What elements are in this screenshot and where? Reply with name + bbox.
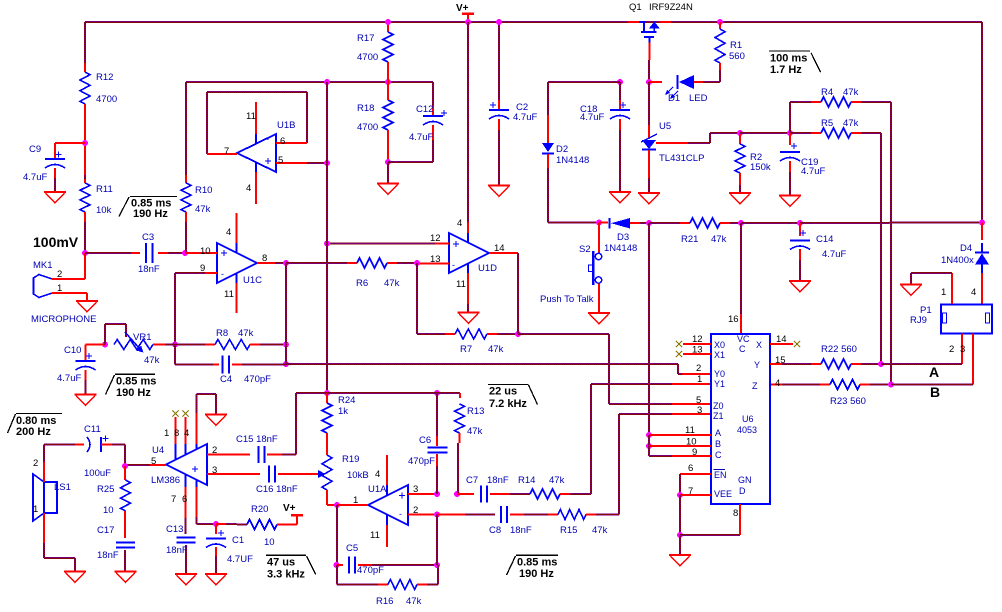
svg-text:8: 8 (174, 428, 179, 439)
svg-text:9: 9 (200, 263, 205, 274)
svg-text:3: 3 (413, 484, 418, 495)
svg-text:Y0: Y0 (714, 369, 725, 379)
svg-text:C17: C17 (97, 525, 114, 536)
svg-text:11: 11 (370, 530, 380, 541)
svg-text:47k: 47k (384, 278, 400, 289)
svg-text:150k: 150k (750, 162, 771, 173)
svg-text:11: 11 (246, 111, 256, 122)
svg-text:7: 7 (171, 494, 176, 505)
svg-text:5: 5 (278, 155, 283, 166)
svg-text:4.7uF: 4.7uF (409, 132, 433, 143)
svg-text:4: 4 (375, 469, 380, 480)
svg-text:U1B: U1B (277, 120, 295, 131)
svg-text:3.3 kHz: 3.3 kHz (267, 569, 305, 581)
svg-text:R11: R11 (96, 184, 113, 195)
svg-text:R4: R4 (821, 87, 833, 98)
svg-text:11: 11 (456, 279, 466, 290)
svg-text:7: 7 (224, 146, 229, 157)
svg-text:47 us: 47 us (267, 557, 295, 569)
svg-text:47k: 47k (488, 344, 504, 355)
svg-text:470pF: 470pF (244, 374, 271, 385)
svg-text:X: X (756, 340, 762, 350)
svg-text:4: 4 (184, 428, 189, 439)
svg-text:C16 18nF: C16 18nF (256, 484, 298, 495)
svg-text:IRF9Z24N: IRF9Z24N (649, 2, 693, 13)
svg-text:470pF: 470pF (408, 456, 435, 467)
svg-text:10: 10 (264, 537, 275, 548)
svg-text:47k: 47k (406, 596, 422, 607)
svg-text:LED: LED (689, 93, 708, 104)
svg-text:6: 6 (182, 494, 187, 505)
svg-text:D4: D4 (960, 243, 972, 254)
svg-text:VC: VC (737, 334, 750, 344)
svg-text:R22 560: R22 560 (821, 344, 857, 355)
svg-text:-: - (221, 269, 224, 279)
svg-text:R12: R12 (96, 72, 113, 83)
svg-text:B: B (930, 384, 940, 400)
svg-text:EN: EN (714, 470, 727, 480)
svg-text:22 us: 22 us (489, 386, 517, 398)
svg-text:R16: R16 (376, 596, 393, 607)
svg-text:1N4148: 1N4148 (556, 155, 589, 166)
svg-text:U1A: U1A (368, 484, 387, 495)
svg-text:47k: 47k (592, 525, 608, 536)
svg-text:4.7uF: 4.7uF (580, 112, 604, 123)
svg-text:MICROPHONE: MICROPHONE (31, 314, 96, 325)
svg-text:4.7uF: 4.7uF (23, 172, 47, 183)
svg-text:4: 4 (246, 183, 251, 194)
svg-text:U1C: U1C (243, 275, 262, 286)
svg-text:X0: X0 (714, 340, 725, 350)
svg-text:2: 2 (413, 505, 418, 516)
svg-text:D1: D1 (668, 93, 680, 104)
svg-text:2: 2 (57, 269, 62, 280)
svg-text:B: B (715, 439, 721, 449)
svg-text:4053: 4053 (737, 425, 757, 435)
svg-text:MK1: MK1 (33, 260, 53, 271)
svg-text:14: 14 (776, 334, 787, 345)
svg-text:1.7 Hz: 1.7 Hz (770, 64, 802, 76)
svg-text:1: 1 (57, 283, 62, 294)
svg-text:4: 4 (775, 378, 780, 389)
svg-text:S2: S2 (579, 244, 591, 255)
svg-text:VR1: VR1 (133, 332, 151, 343)
svg-text:10: 10 (103, 505, 114, 516)
svg-text:47k: 47k (467, 426, 483, 437)
svg-text:C7: C7 (466, 475, 478, 486)
svg-text:190 Hz: 190 Hz (133, 208, 168, 220)
svg-text:3: 3 (697, 405, 702, 416)
svg-text:-: - (266, 134, 269, 144)
svg-text:C10: C10 (64, 345, 81, 356)
svg-text:6: 6 (280, 136, 285, 147)
svg-text:3: 3 (212, 465, 217, 476)
svg-text:200 Hz: 200 Hz (16, 426, 51, 438)
svg-text:Y: Y (754, 360, 760, 370)
svg-text:C12: C12 (416, 104, 433, 115)
svg-text:C13: C13 (166, 524, 183, 535)
svg-text:12: 12 (692, 334, 703, 345)
svg-text:LM386: LM386 (151, 475, 180, 486)
svg-text:2: 2 (33, 458, 38, 469)
svg-text:10kB: 10kB (347, 470, 369, 481)
svg-text:C: C (739, 344, 746, 354)
svg-text:0.85 ms: 0.85 ms (517, 557, 557, 569)
svg-text:Z1: Z1 (713, 411, 724, 421)
svg-text:2: 2 (696, 363, 701, 374)
svg-text:47k: 47k (711, 234, 727, 245)
svg-text:TL431CLP: TL431CLP (659, 153, 704, 164)
svg-text:C5: C5 (346, 543, 358, 554)
svg-text:4700: 4700 (357, 122, 378, 133)
svg-text:U1D: U1D (478, 263, 497, 274)
svg-text:R7: R7 (460, 344, 472, 355)
svg-text:5: 5 (151, 456, 156, 467)
svg-text:3: 3 (960, 344, 965, 355)
svg-text:18nF: 18nF (487, 475, 509, 486)
svg-text:4: 4 (226, 227, 231, 238)
svg-text:4: 4 (457, 218, 462, 229)
svg-text:C: C (715, 450, 722, 460)
svg-text:13: 13 (430, 254, 441, 265)
svg-text:GN: GN (738, 475, 752, 485)
svg-text:R21: R21 (681, 234, 698, 245)
svg-text:D3: D3 (617, 232, 629, 243)
svg-text:4.7uF: 4.7uF (513, 112, 537, 123)
svg-text:X1: X1 (714, 350, 725, 360)
svg-text:C6: C6 (419, 435, 431, 446)
svg-text:18nF: 18nF (97, 550, 119, 561)
svg-text:1: 1 (164, 428, 169, 439)
svg-text:14: 14 (494, 243, 505, 254)
svg-text:U5: U5 (659, 121, 671, 132)
svg-text:1N400x: 1N400x (941, 255, 974, 266)
svg-text:47k: 47k (843, 118, 859, 129)
svg-text:R18: R18 (357, 103, 374, 114)
svg-text:R17: R17 (357, 33, 374, 44)
svg-text:4: 4 (971, 287, 976, 298)
svg-text:U4: U4 (152, 445, 164, 456)
svg-text:4700: 4700 (357, 52, 378, 63)
svg-text:47k: 47k (549, 475, 565, 486)
svg-text:15: 15 (775, 355, 786, 366)
svg-text:R13: R13 (467, 406, 484, 417)
svg-text:10: 10 (200, 246, 211, 257)
svg-text:4.7UF: 4.7UF (227, 554, 253, 565)
svg-text:4700: 4700 (96, 94, 117, 105)
svg-text:47k: 47k (195, 204, 211, 215)
svg-text:1: 1 (353, 495, 358, 506)
svg-text:190 Hz: 190 Hz (116, 387, 151, 399)
svg-text:C14: C14 (816, 234, 833, 245)
svg-text:V+: V+ (283, 503, 296, 514)
svg-text:-: - (399, 509, 402, 519)
svg-text:10k: 10k (96, 205, 112, 216)
svg-text:18nF: 18nF (166, 545, 188, 556)
svg-text:R25: R25 (97, 484, 114, 495)
svg-text:R14: R14 (518, 475, 535, 486)
svg-text:11: 11 (224, 289, 234, 300)
svg-text:R1: R1 (730, 40, 742, 51)
svg-text:Z: Z (752, 381, 758, 391)
svg-text:U6: U6 (742, 414, 754, 424)
svg-text:560: 560 (729, 51, 745, 62)
svg-text:A: A (715, 428, 721, 438)
svg-text:D2: D2 (556, 144, 568, 155)
svg-text:VEE: VEE (714, 489, 732, 499)
svg-text:1k: 1k (338, 406, 348, 417)
svg-text:13: 13 (692, 345, 703, 356)
svg-text:C15 18nF: C15 18nF (236, 434, 278, 445)
svg-text:Z0: Z0 (713, 401, 724, 411)
svg-text:6: 6 (688, 463, 693, 474)
svg-text:18nF: 18nF (510, 525, 532, 536)
svg-text:Push To Talk: Push To Talk (540, 294, 594, 305)
svg-text:1: 1 (941, 287, 946, 298)
svg-text:1N4148: 1N4148 (604, 243, 637, 254)
svg-text:C9: C9 (29, 144, 41, 155)
svg-text:C11: C11 (84, 424, 101, 435)
svg-text:R8: R8 (216, 328, 228, 339)
svg-text:47k: 47k (144, 355, 160, 366)
svg-text:C3: C3 (142, 232, 154, 243)
svg-text:7.2 kHz: 7.2 kHz (489, 398, 527, 410)
svg-text:47k: 47k (843, 87, 859, 98)
svg-text:2: 2 (949, 344, 954, 355)
svg-text:1: 1 (697, 374, 702, 385)
svg-text:A: A (929, 364, 939, 380)
svg-text:R23 560: R23 560 (830, 396, 866, 407)
svg-text:Q1: Q1 (629, 2, 642, 13)
svg-text:16: 16 (728, 314, 739, 325)
svg-text:4.7uF: 4.7uF (801, 166, 825, 177)
svg-text:R6: R6 (356, 278, 368, 289)
svg-text:100mV: 100mV (33, 234, 79, 250)
svg-text:R24: R24 (338, 395, 355, 406)
svg-text:8: 8 (733, 508, 738, 519)
svg-text:18nF: 18nF (138, 264, 160, 275)
svg-text:C1: C1 (232, 535, 244, 546)
svg-text:-: - (452, 260, 455, 270)
svg-text:2: 2 (212, 445, 217, 456)
svg-text:4.7uF: 4.7uF (57, 373, 81, 384)
svg-text:C8: C8 (489, 525, 501, 536)
svg-text:R15: R15 (560, 525, 577, 536)
svg-text:470pF: 470pF (357, 565, 384, 576)
svg-text:4.7uF: 4.7uF (822, 249, 846, 260)
svg-text:100 ms: 100 ms (770, 53, 807, 65)
svg-text:R19: R19 (342, 454, 359, 465)
svg-text:R20: R20 (251, 504, 268, 515)
svg-text:47k: 47k (238, 328, 254, 339)
svg-text:C4: C4 (220, 374, 232, 385)
svg-text:0.85 ms: 0.85 ms (116, 376, 156, 388)
svg-text:D: D (739, 486, 746, 496)
svg-text:1: 1 (33, 504, 38, 515)
svg-text:100uF: 100uF (84, 468, 111, 479)
svg-text:12: 12 (430, 233, 441, 244)
svg-text:Y1: Y1 (714, 379, 725, 389)
svg-text:R5: R5 (821, 118, 833, 129)
svg-text:RJ9: RJ9 (910, 315, 927, 326)
svg-text:190 Hz: 190 Hz (519, 568, 554, 580)
svg-text:8: 8 (262, 253, 267, 264)
svg-text:R10: R10 (195, 185, 212, 196)
